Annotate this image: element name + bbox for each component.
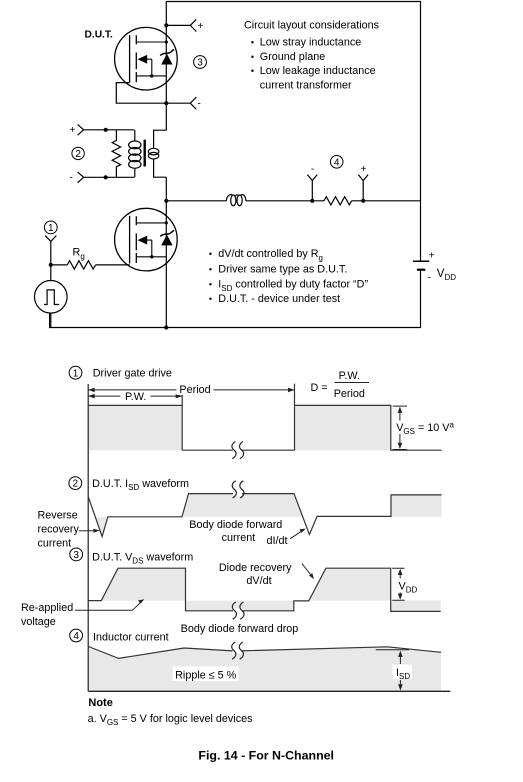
svg-text:-: - — [428, 273, 431, 284]
svg-text:VDD: VDD — [399, 581, 418, 595]
svg-text:Note: Note — [88, 697, 112, 709]
svg-text:Fig. 14 - For N-Channel: Fig. 14 - For N-Channel — [198, 748, 334, 762]
svg-text:•: • — [251, 38, 254, 48]
svg-text:3: 3 — [73, 550, 79, 561]
svg-text:Driver gate drive: Driver gate drive — [93, 367, 172, 379]
svg-text:Diode recovery: Diode recovery — [219, 562, 292, 574]
svg-text:Ground plane: Ground plane — [260, 51, 325, 63]
svg-text:1: 1 — [73, 368, 79, 379]
svg-text:Ripple ≤ 5 %: Ripple ≤ 5 % — [175, 670, 237, 682]
svg-text:•: • — [209, 279, 212, 289]
svg-text:Driver same type as D.U.T.: Driver same type as D.U.T. — [218, 263, 347, 275]
svg-text:P.W.: P.W. — [339, 370, 360, 382]
svg-text:recovery: recovery — [38, 524, 80, 536]
svg-text:+: + — [429, 250, 435, 261]
svg-text:4: 4 — [73, 631, 79, 642]
svg-text:3: 3 — [197, 58, 203, 69]
svg-text:+: + — [70, 125, 76, 136]
svg-text:•: • — [209, 264, 212, 274]
svg-text:dV/dt controlled by Rg: dV/dt controlled by Rg — [218, 248, 323, 263]
svg-text:2: 2 — [73, 479, 79, 490]
svg-text:voltage: voltage — [21, 616, 56, 628]
svg-text:Inductor current: Inductor current — [93, 632, 169, 644]
svg-text:Period: Period — [334, 388, 365, 400]
svg-text:+: + — [361, 164, 367, 175]
svg-text:Period: Period — [179, 384, 210, 396]
svg-text:Low stray inductance: Low stray inductance — [260, 37, 361, 49]
svg-text:VGS = 10 Va: VGS = 10 Va — [396, 421, 454, 437]
svg-text:Reverse: Reverse — [38, 510, 78, 522]
svg-text:current: current — [222, 532, 256, 544]
svg-text:current transformer: current transformer — [260, 80, 352, 92]
svg-text:•: • — [251, 52, 254, 62]
svg-text:P.W.: P.W. — [125, 391, 146, 403]
svg-text:D.U.T. VDS waveform: D.U.T. VDS waveform — [92, 551, 193, 565]
svg-text:D =: D = — [311, 382, 328, 394]
svg-text:2: 2 — [75, 149, 81, 160]
svg-text:VDD: VDD — [437, 268, 456, 282]
svg-text:-: - — [198, 99, 201, 110]
svg-text:dV/dt: dV/dt — [246, 575, 271, 587]
svg-text:dI/dt: dI/dt — [266, 535, 287, 547]
svg-text:current: current — [38, 538, 72, 550]
svg-text:+: + — [198, 21, 204, 32]
svg-text:4: 4 — [334, 157, 340, 168]
svg-text:•: • — [251, 66, 254, 76]
svg-text:Rg: Rg — [73, 246, 85, 260]
svg-text:Circuit layout considerations: Circuit layout considerations — [244, 19, 380, 31]
svg-text:•: • — [209, 294, 212, 304]
svg-text:1: 1 — [48, 223, 54, 234]
svg-text:-: - — [70, 173, 73, 184]
svg-text:a. VGS = 5 V for logic level d: a. VGS = 5 V for logic level devices — [88, 713, 254, 727]
svg-text:•: • — [209, 249, 212, 259]
svg-text:Body diode forward drop: Body diode forward drop — [181, 623, 299, 635]
svg-text:-: - — [311, 164, 314, 175]
svg-text:D.U.T. - device under test: D.U.T. - device under test — [218, 293, 340, 305]
svg-text:D.U.T.: D.U.T. — [85, 29, 113, 40]
svg-text:Low leakage inductance: Low leakage inductance — [260, 65, 376, 77]
svg-text:ISD controlled by duty factor: ISD controlled by duty factor “D” — [218, 278, 368, 293]
svg-text:Re-applied: Re-applied — [21, 602, 73, 614]
svg-text:D.U.T. ISD waveform: D.U.T. ISD waveform — [92, 478, 189, 492]
svg-text:Body diode forward: Body diode forward — [189, 519, 282, 531]
